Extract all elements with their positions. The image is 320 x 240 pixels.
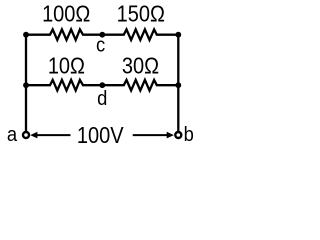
svg-text:a: a (7, 124, 18, 146)
svg-text:100Ω: 100Ω (42, 0, 90, 27)
svg-text:100V: 100V (77, 121, 124, 148)
svg-text:d: d (97, 89, 107, 111)
svg-text:c: c (96, 35, 106, 57)
svg-text:150Ω: 150Ω (117, 0, 165, 27)
svg-text:10Ω: 10Ω (48, 52, 85, 79)
svg-text:30Ω: 30Ω (122, 52, 159, 79)
svg-text:b: b (184, 124, 194, 146)
